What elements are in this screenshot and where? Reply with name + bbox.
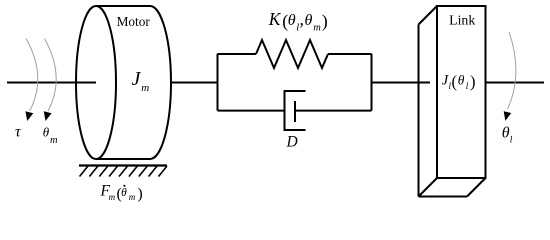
svg-text:Link: Link — [449, 13, 475, 28]
link box front face — [437, 6, 486, 178]
svg-text:θl: θl — [502, 125, 513, 146]
wire shaft segment 3 (coupling to link) — [372, 82, 431, 84]
wire shaft segment 1 (left input shaft) — [7, 82, 96, 84]
svg-text:Jm: Jm — [132, 68, 150, 94]
svg-text:Jl(θl): Jl(θl) — [442, 72, 476, 91]
link box back-left edge — [418, 25, 420, 197]
svg-text:τ: τ — [15, 124, 22, 141]
angle arrow theta_m (curved) — [44, 39, 56, 122]
link box bottom-left edge — [419, 178, 438, 197]
wire shaft segment 2 (motor to coupling) — [171, 82, 218, 84]
link box top-left edge — [419, 6, 438, 25]
torque arrow tau (curved) — [26, 39, 38, 122]
link box bottom-right edge — [467, 178, 486, 197]
wire top branch left — [218, 53, 257, 55]
motor cylinder left face ellipse — [76, 6, 116, 159]
ground line — [79, 164, 167, 166]
ground hatching — [80, 166, 168, 177]
motor cylinder body — [96, 6, 171, 159]
spring K zigzag — [256, 40, 328, 68]
link box bottom back edge — [419, 196, 468, 198]
wire bottom branch right (damper rod) — [295, 110, 372, 112]
wire shaft segment 4 (link output shaft) — [486, 82, 545, 84]
coupling right bracket — [371, 54, 373, 111]
angle arrow theta_l (curved) — [504, 32, 516, 121]
wire bottom branch left — [218, 110, 285, 112]
damper D piston — [294, 101, 296, 122]
label Fm (friction) — [100, 182, 143, 202]
svg-text:Motor: Motor — [117, 14, 151, 29]
svg-text:Fm(θm): Fm(θm) — [100, 182, 143, 202]
wire top branch right — [328, 53, 372, 55]
coupling left bracket — [217, 54, 219, 111]
svg-text:D: D — [286, 133, 298, 150]
svg-text:K(θl,θm): K(θl,θm) — [268, 9, 328, 33]
svg-text:θm: θm — [43, 125, 58, 146]
damper D cup — [285, 91, 306, 130]
